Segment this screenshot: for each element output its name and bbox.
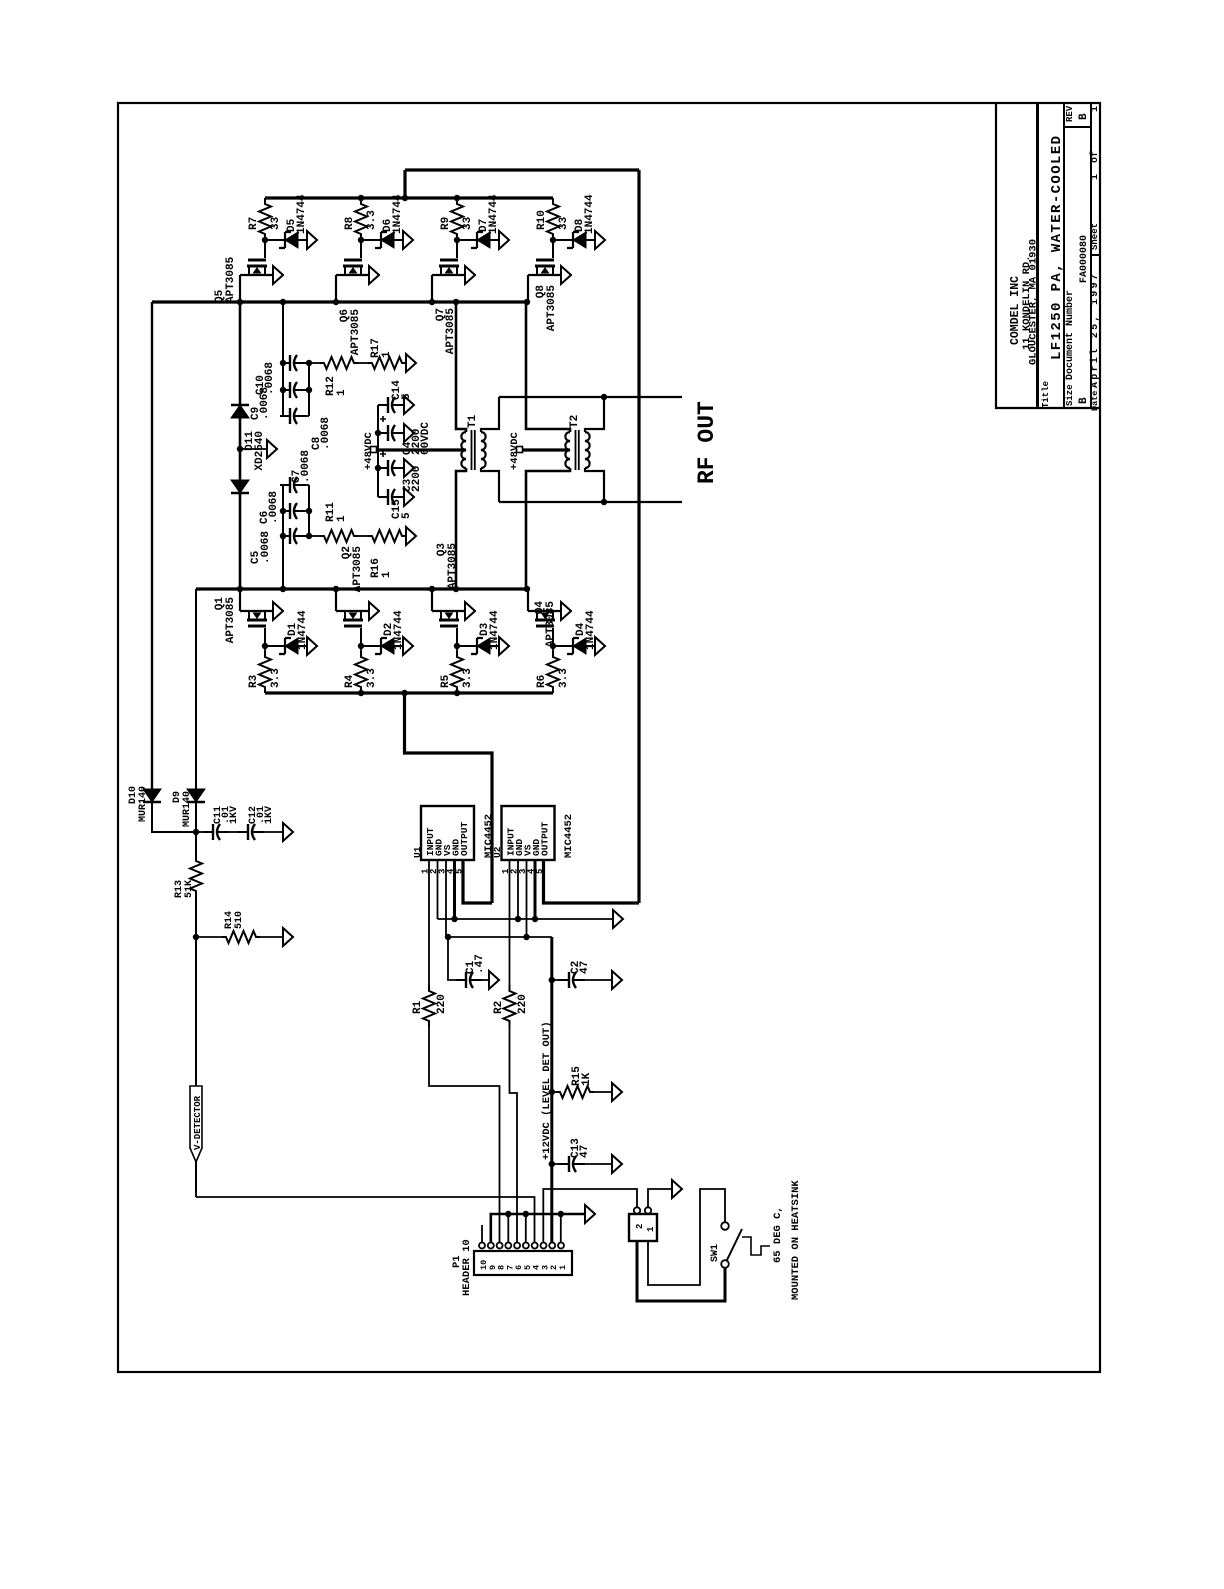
power +48VDC pad T1 — [371, 447, 377, 453]
wire U2 output run — [544, 860, 640, 903]
svg-text:of: of — [1089, 151, 1101, 163]
svg-text:SW1: SW1 — [710, 1244, 721, 1262]
port gate clamp Q3 — [499, 637, 509, 655]
capacitor C9 .0068 — [280, 389, 290, 391]
svg-text:.0068: .0068 — [268, 491, 280, 524]
resistor R6 3.3 — [552, 646, 554, 651]
resistor R13 51K — [195, 832, 197, 855]
diode D11 XD2540 upper — [231, 405, 249, 418]
node gate Q7 — [454, 237, 460, 243]
svg-text:3.3: 3.3 — [558, 668, 570, 688]
wire left drain rail down to D10 — [151, 302, 153, 789]
wire T2 secondary top lead — [585, 397, 604, 432]
power +48VDC pad T2 — [517, 447, 523, 453]
svg-text:.47: .47 — [474, 954, 486, 974]
svg-text:51K: 51K — [184, 880, 195, 898]
svg-text:3.3: 3.3 — [366, 668, 378, 688]
switch SW1 blade — [727, 1229, 742, 1260]
capacitor C13 47 — [549, 1161, 555, 1167]
svg-text:APT3085: APT3085 — [352, 546, 364, 593]
MOSFET Q8 APT3085 — [552, 240, 554, 258]
wire bottom gate feed riser — [405, 693, 493, 903]
transformer T2 secondary winding — [585, 432, 590, 468]
svg-text:MUR140: MUR140 — [182, 791, 193, 827]
svg-text:1: 1 — [1090, 174, 1101, 180]
switch SW1 terminals — [721, 1222, 729, 1230]
wire gate drive right vertical — [637, 170, 640, 903]
wire U1 output run — [463, 860, 492, 903]
svg-text:220: 220 — [436, 994, 448, 1014]
diode D11 XD2540 lower — [231, 480, 249, 493]
transformer T2 primary winding — [565, 432, 570, 468]
svg-text:1: 1 — [1090, 106, 1101, 112]
transformer T1 primary winding — [461, 432, 466, 468]
svg-text:33: 33 — [270, 216, 282, 230]
junction dots P1 ground bus — [505, 1211, 511, 1217]
resistor R3 3.3 — [264, 646, 266, 651]
junction dots on bottom drain bus — [237, 586, 243, 592]
capacitor C7 .0068 — [280, 484, 290, 486]
resistor R12 1 — [309, 362, 320, 364]
capacitor C3 2200 — [378, 467, 388, 469]
svg-text:April 25, 1997: April 25, 1997 — [1089, 272, 1101, 388]
transformer T1 core — [472, 430, 475, 470]
capacitor C15 5 — [378, 496, 388, 498]
wire U1 pin4 gnd — [453, 860, 456, 919]
wire U1 pin2 gnd — [437, 860, 439, 919]
svg-text:R10: R10 — [536, 210, 548, 230]
svg-text:U1: U1 — [412, 846, 423, 858]
resistor R4 3.3 — [360, 646, 362, 651]
svg-text:1N4744: 1N4744 — [488, 194, 500, 234]
zener D3 1N4744 — [457, 645, 477, 647]
svg-text:1: 1 — [381, 351, 393, 358]
node gate Q3 — [454, 643, 460, 649]
port P1 ground — [585, 1205, 595, 1223]
svg-text:XD2540: XD2540 — [254, 431, 266, 471]
svg-text:R2: R2 — [493, 1001, 505, 1014]
MOSFET Q1 APT3085 — [264, 628, 266, 646]
svg-text:MUR140: MUR140 — [138, 786, 149, 822]
wire bulk cap rail — [377, 405, 379, 497]
capacitor C14 5 — [378, 404, 388, 406]
diode D9 MUR140 — [187, 789, 205, 802]
connector P1 HEADER 10 — [474, 1251, 572, 1275]
node RF hot T2 tap — [601, 394, 607, 400]
svg-text:3.3: 3.3 — [462, 668, 474, 688]
resistor R8 3.3 — [355, 198, 367, 240]
junction dots VS net — [523, 934, 529, 940]
port D11 center tap — [267, 440, 277, 458]
node gate Q2 — [358, 643, 364, 649]
port gate clamp Q5 — [307, 231, 317, 249]
capacitor C8 .0068 — [280, 415, 290, 417]
svg-text:3.3: 3.3 — [270, 668, 282, 688]
svg-text:R7: R7 — [248, 217, 260, 230]
wire RF OUT hot — [499, 396, 682, 398]
junction dots on top gate bus — [358, 195, 364, 201]
wire snubber rail right bottom — [308, 485, 310, 536]
node detector junction — [193, 829, 199, 835]
svg-text:.0068: .0068 — [260, 531, 272, 564]
svg-text:.0068: .0068 — [300, 450, 312, 483]
IC U2 MIC4452 — [502, 806, 555, 860]
wire +12VDC rail — [550, 937, 553, 1242]
svg-text:5: 5 — [401, 393, 413, 400]
svg-text:T1: T1 — [467, 414, 479, 428]
svg-text:Title: Title — [1041, 381, 1051, 408]
wire P1 ground bus — [491, 1214, 585, 1242]
wire T2 primary top lead — [526, 302, 570, 432]
resistor R10 33 — [547, 198, 559, 240]
wire U2 pin4 gnd — [534, 860, 537, 919]
node gate Q4 — [550, 643, 556, 649]
wire P1 pin5 stub — [525, 1214, 527, 1242]
port interlock — [672, 1180, 682, 1198]
port damp top — [405, 362, 407, 364]
wire U2 pin3 vs — [526, 860, 528, 937]
port gate clamp Q2 — [403, 637, 413, 655]
sheet border frame — [118, 103, 1100, 1372]
resistor R1 220 — [423, 985, 435, 1027]
svg-text:1K: 1K — [581, 1072, 593, 1086]
svg-text:65 DEG C,: 65 DEG C, — [772, 1206, 784, 1263]
wire connector pin1 to port — [648, 1189, 672, 1208]
wire T1 secondary bottom lead — [481, 468, 499, 502]
junction dots snubber top — [280, 360, 286, 366]
svg-text:+48VDC: +48VDC — [509, 431, 521, 470]
svg-text:Size: Size — [1065, 384, 1075, 406]
port gate clamp Q8 — [595, 231, 605, 249]
resistor R11 1 — [309, 535, 320, 537]
zener D7 1N4744 — [457, 239, 477, 241]
zener D8 1N4744 — [553, 239, 573, 241]
svg-text:T2: T2 — [569, 415, 581, 428]
wire P1 pin7 stub — [507, 1214, 509, 1242]
wire D10 to junction — [152, 802, 196, 832]
wire drain column Q5/Q1 — [239, 302, 242, 405]
port gate clamp Q4 — [595, 637, 605, 655]
svg-text:FA000080: FA000080 — [1079, 235, 1090, 283]
svg-text:APT3085: APT3085 — [350, 309, 362, 356]
capacitor C12 .01 1KV — [229, 831, 238, 833]
wire gate drive top run — [405, 168, 639, 171]
wire U1 pin3 vs — [445, 860, 447, 937]
svg-text:R3: R3 — [248, 674, 260, 688]
MOSFET Q7 APT3085 — [456, 240, 458, 258]
svg-text:REV: REV — [1065, 105, 1075, 122]
wire P1 pin1 stub — [560, 1214, 562, 1242]
svg-text:33: 33 — [462, 216, 474, 230]
wire snubber rail left top — [282, 302, 284, 416]
wire D9 to junction — [195, 802, 197, 832]
resistor R14 510 — [222, 931, 260, 943]
svg-text:V-DETECTOR: V-DETECTOR — [193, 1095, 203, 1150]
svg-text:MOUNTED ON HEATSINK: MOUNTED ON HEATSINK — [790, 1180, 802, 1300]
wire +48VDC to T2 center tap — [522, 448, 570, 451]
IC U1 MIC4452 — [421, 806, 474, 860]
wire bottom drain bus — [196, 587, 527, 590]
capacitor C11 .01 1KV — [196, 831, 203, 833]
svg-text:R4: R4 — [344, 674, 356, 688]
wire connector pin2 to P1 pin3 — [543, 1189, 637, 1242]
capacitor C6 .0068 — [280, 510, 290, 512]
connector J1 2-pin — [629, 1214, 657, 1241]
svg-text:HEADER 10: HEADER 10 — [461, 1239, 473, 1296]
zener D4 1N4744 — [553, 645, 573, 647]
svg-text:LF1250 PA, WATER-COOLED: LF1250 PA, WATER-COOLED — [1049, 135, 1065, 360]
port gate clamp Q1 — [307, 637, 317, 655]
wire T2 primary bottom lead — [526, 468, 570, 589]
svg-text:+48VDC: +48VDC — [363, 431, 375, 470]
port gate clamp Q6 — [403, 231, 413, 249]
svg-text:1KV: 1KV — [229, 806, 240, 824]
zener D1 1N4744 — [265, 645, 285, 647]
wire RF OUT return — [499, 501, 682, 503]
wire bottom drain rail to D9 — [195, 589, 197, 789]
svg-text:OUTPUT: OUTPUT — [540, 821, 551, 856]
port C2 — [612, 971, 622, 989]
svg-text:R8: R8 — [344, 216, 356, 230]
port R15 — [612, 1083, 622, 1101]
svg-text:1N4744: 1N4744 — [296, 194, 308, 234]
resistor R7 33 — [259, 198, 271, 240]
svg-text:U2: U2 — [492, 846, 503, 858]
svg-text:5: 5 — [401, 512, 413, 519]
wire T1 secondary top lead — [481, 397, 499, 432]
svg-text:47: 47 — [579, 961, 591, 974]
port damp bottom — [406, 527, 416, 545]
wire detector down to flag — [195, 937, 197, 1197]
svg-text:.0068: .0068 — [259, 387, 271, 420]
node gate Q6 — [358, 237, 364, 243]
wire V-DETECTOR to P1 pin 4 — [196, 1197, 535, 1242]
resistor R17 1 — [358, 362, 368, 364]
wire T1 primary bottom lead — [456, 468, 466, 589]
wire U2 pin1 input — [509, 860, 511, 985]
zener D6 1N4744 — [361, 239, 381, 241]
wire snubber rail right top — [308, 363, 310, 416]
svg-text:.0068: .0068 — [320, 417, 332, 450]
node D11 center — [237, 446, 243, 452]
svg-text:R1: R1 — [412, 1000, 424, 1014]
junction dots ground net — [451, 916, 457, 922]
node gate Q5 — [262, 237, 268, 243]
svg-text:RF OUT: RF OUT — [694, 401, 720, 484]
svg-text:1KV: 1KV — [264, 806, 275, 824]
diode D10 MUR140 — [143, 789, 161, 802]
svg-text:3.3: 3.3 — [366, 210, 378, 230]
junction dots bulk rail — [375, 430, 381, 436]
junction dots snubber bottom — [280, 508, 286, 514]
svg-text:OUTPUT: OUTPUT — [459, 821, 470, 856]
resistor R15 1K — [549, 1089, 555, 1095]
svg-text:1: 1 — [558, 1265, 568, 1270]
svg-text:Date: Date — [1090, 391, 1100, 411]
junction dots on bottom gate bus — [358, 690, 364, 696]
svg-text:APT3085: APT3085 — [225, 597, 237, 644]
svg-text:R5: R5 — [440, 674, 452, 688]
svg-text:2200: 2200 — [411, 466, 423, 492]
wire T2 secondary bottom lead — [585, 468, 604, 502]
MOSFET Q6 APT3085 — [360, 240, 362, 258]
svg-text:MIC4452: MIC4452 — [563, 814, 575, 858]
wire connector to SW1 bottom loop — [637, 1241, 725, 1301]
wire connector to SW1 top loop — [648, 1189, 725, 1285]
port R14 — [283, 928, 293, 946]
svg-text:GLOUCESTER, MA 01930: GLOUCESTER, MA 01930 — [1028, 239, 1040, 365]
MOSFET Q5 APT3085 — [264, 240, 266, 258]
wire U2 pin2 gnd — [517, 860, 519, 919]
wire P1 pin10 stub — [481, 1225, 483, 1242]
port detector cap — [283, 823, 293, 841]
wire snubber rail left bottom — [282, 485, 284, 589]
port C1 — [489, 971, 499, 989]
svg-text:1: 1 — [381, 571, 393, 578]
resistor R16 1 — [358, 535, 368, 537]
port gate clamp Q7 — [499, 231, 509, 249]
node RF return T2 tap — [601, 499, 607, 505]
transformer T1 secondary winding — [481, 432, 486, 468]
transformer T2 core — [576, 430, 579, 470]
MOSFET Q2 APT3085 — [360, 628, 362, 646]
svg-text:B: B — [1078, 113, 1090, 120]
svg-text:33: 33 — [558, 216, 570, 230]
svg-text:R6: R6 — [536, 675, 548, 688]
capacitor C5 .0068 — [280, 535, 290, 537]
node gate Q1 — [262, 643, 268, 649]
wire bottom gate bus — [265, 691, 553, 694]
switch SW1 thermal actuator — [742, 1237, 770, 1255]
svg-text:510: 510 — [234, 911, 245, 929]
wire top drain bus — [152, 300, 527, 303]
capacitor C2 47 — [549, 977, 555, 983]
svg-text:Document Number: Document Number — [1064, 290, 1076, 380]
capacitor C1 .47 — [448, 937, 456, 980]
title block outline — [996, 103, 1100, 408]
MOSFET Q4 APT3085 — [552, 628, 554, 646]
wire top gate bus — [265, 196, 553, 199]
node gate Q8 — [550, 237, 556, 243]
wire T1 primary top lead — [456, 302, 466, 432]
wire gate drive riser to top bus — [403, 170, 406, 198]
svg-text:2: 2 — [635, 1224, 645, 1229]
svg-text:APT3085: APT3085 — [546, 285, 558, 332]
wire driver ground net — [438, 918, 614, 920]
capacitor C4 2200 60VDC — [378, 432, 388, 434]
resistor R9 33 — [451, 198, 463, 240]
svg-text:47: 47 — [579, 1145, 591, 1158]
node R14 tap — [193, 934, 199, 940]
svg-text:APT3085: APT3085 — [225, 256, 237, 303]
svg-text:B: B — [1078, 397, 1090, 404]
svg-text:APT3085: APT3085 — [545, 601, 557, 648]
svg-text:220: 220 — [517, 994, 529, 1014]
wire U1 pin1 input — [428, 860, 430, 985]
svg-text:1N4744: 1N4744 — [392, 194, 404, 234]
wire driver VS net — [446, 936, 552, 938]
wire D11 port — [240, 448, 267, 450]
port C13 — [612, 1155, 622, 1173]
svg-text:1: 1 — [336, 389, 348, 396]
port driver ground — [613, 910, 623, 928]
net flag V-DETECTOR — [190, 1086, 202, 1162]
wire +48VDC to T1 center tap — [376, 448, 466, 451]
svg-text:1: 1 — [646, 1226, 656, 1232]
svg-text:R9: R9 — [440, 217, 452, 230]
svg-text:1: 1 — [336, 515, 348, 522]
junction dots on top drain bus — [237, 299, 243, 305]
MOSFET Q3 APT3085 — [456, 628, 458, 646]
svg-text:Sheet: Sheet — [1090, 223, 1100, 250]
resistor R2 220 — [504, 985, 516, 1027]
zener D2 1N4744 — [361, 645, 381, 647]
zener D5 1N4744 — [265, 239, 285, 241]
svg-text:1N4744: 1N4744 — [584, 194, 596, 234]
capacitor C10 .0068 — [280, 362, 290, 364]
resistor R5 3.3 — [456, 646, 458, 651]
